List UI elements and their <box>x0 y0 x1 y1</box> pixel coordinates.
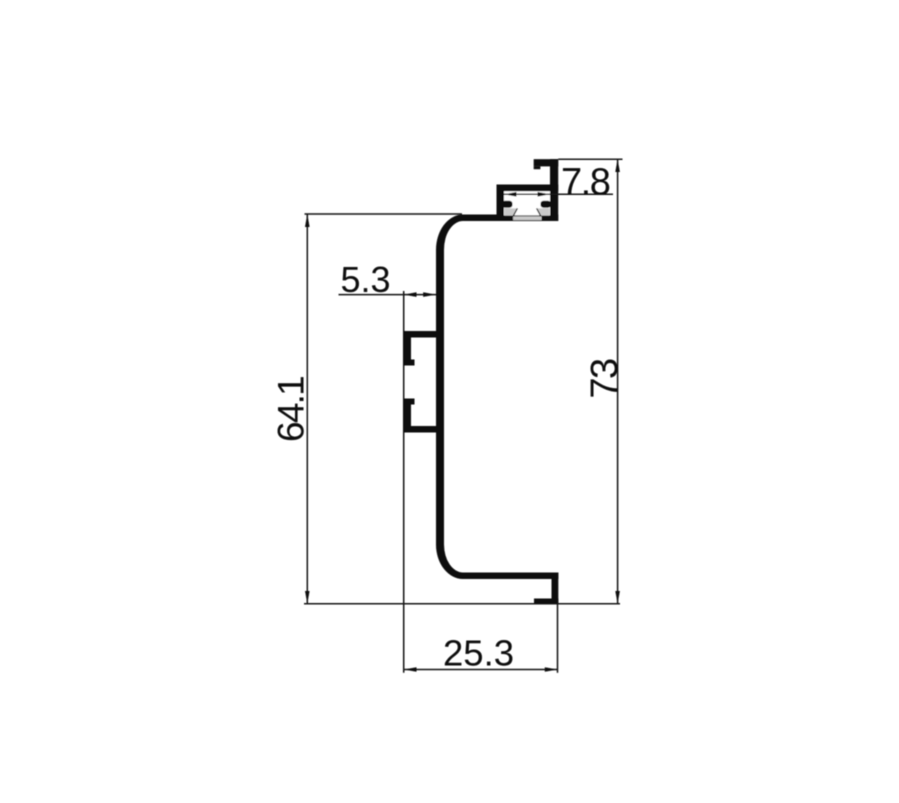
arrow 7.8 right <box>538 192 551 197</box>
clip 2 left wall <box>403 399 411 433</box>
svg-text:7.8: 7.8 <box>561 162 610 204</box>
profile main wall <box>436 249 444 546</box>
screw channel left gray wedge <box>505 208 518 215</box>
screw channel lintel <box>497 185 559 192</box>
screw channel right chamfer line <box>537 208 541 216</box>
screw channel left wall <box>497 185 505 222</box>
clip 2 bottom bar <box>403 426 436 433</box>
dim 25.3 dimension line <box>404 669 558 671</box>
arrow 25.3 left <box>404 667 417 672</box>
screw channel right gray wedge <box>537 208 550 215</box>
bottom hook stub <box>534 599 558 605</box>
profile bottom-left corner curve <box>436 545 463 580</box>
svg-text:25.3: 25.3 <box>443 633 514 674</box>
arrow 25.3 right <box>545 667 558 672</box>
clip 2 top stub <box>403 399 415 405</box>
profile bottom flange bar <box>462 573 558 580</box>
bottom datum extension line <box>304 603 620 605</box>
hook top-left lip <box>534 166 541 169</box>
svg-text:5.3: 5.3 <box>341 259 391 300</box>
svg-text:73: 73 <box>584 359 626 399</box>
dim 5.3 / 25.3 left extension line <box>403 291 405 673</box>
dim 73 dimension line <box>617 159 619 603</box>
hook top bar <box>534 159 559 166</box>
screw channel left boss <box>502 201 513 208</box>
arrow 73 bottom (down) <box>615 591 620 604</box>
clip 1 top bar <box>403 331 436 338</box>
dim 64.1 top extension line <box>305 213 463 215</box>
screw channel right boss <box>541 201 552 208</box>
profile top-left corner curve <box>436 215 463 251</box>
arrow 64.1 top (up) <box>305 214 310 227</box>
dim 64.1 dimension line <box>306 214 308 604</box>
arrow 73 top (up) <box>615 159 620 172</box>
screw channel left chamfer line <box>513 208 517 216</box>
dim 25.3 right extension line <box>557 605 559 673</box>
arrow 7.8 left <box>504 192 517 197</box>
arrow 64.1 bottom (down) <box>305 591 310 604</box>
dim 73 top extension line <box>558 158 622 160</box>
hook vertical bar / channel right wall <box>550 159 558 221</box>
arrow 5.3 left <box>404 292 417 297</box>
bottom hook vertical bar <box>552 573 559 605</box>
clip 1 left wall <box>403 331 411 366</box>
dim 5.3 dimension line <box>339 294 437 296</box>
svg-text:64.1: 64.1 <box>271 377 312 442</box>
arrow 5.3 right <box>423 292 436 297</box>
profile top flange bar <box>462 215 558 222</box>
dim 7.8 dimension line <box>504 193 613 195</box>
screw channel gray band <box>513 216 542 220</box>
clip 1 bottom stub <box>403 360 415 366</box>
screw channel interior <box>504 191 550 215</box>
